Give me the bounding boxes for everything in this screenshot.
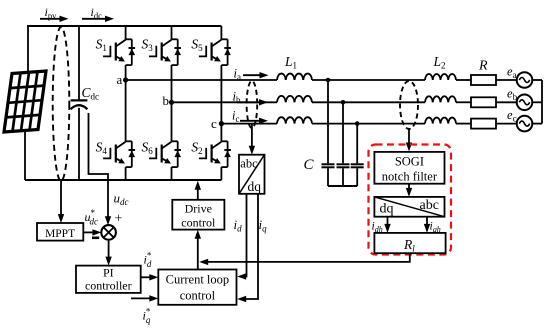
resistor R phase c <box>471 119 496 129</box>
wire PV bottom to bus <box>24 130 26 180</box>
grid source e_a <box>517 72 533 88</box>
arrow i_a <box>243 74 263 76</box>
current sensor ellipse (i_pv / DC side) <box>53 27 70 181</box>
resistor R phase b <box>471 97 496 107</box>
transistor S3 (IGBT with antiparallel diode) <box>149 39 181 65</box>
svg-text:b: b <box>163 93 170 108</box>
arrow i_dc <box>82 18 110 20</box>
node b dot <box>169 100 174 105</box>
top DC bus wire <box>27 25 221 27</box>
phase b wire <box>172 101 278 103</box>
arrow sensor to SOGI filter <box>408 129 410 148</box>
capacitor C_dc <box>71 99 88 101</box>
svg-text:C: C <box>304 157 315 173</box>
svg-text:i*q: i*q <box>143 307 151 326</box>
dq to abc transform block <box>374 197 444 217</box>
svg-text:dq: dq <box>380 202 394 217</box>
arrow MPPT to summer <box>83 231 98 233</box>
svg-text:a: a <box>117 72 123 87</box>
filter capacitor C phase c <box>351 163 364 165</box>
svg-text:R: R <box>478 59 488 74</box>
SOGI notch filter block <box>374 152 444 184</box>
transistor S4 (IGBT with antiparallel diode) <box>103 141 135 167</box>
arrow phase c to abc-dq transform <box>251 124 253 151</box>
red dashed harmonic-compensation group box <box>369 145 452 255</box>
grid neutral wire <box>541 80 543 124</box>
wire C_dc to bottom bus <box>78 108 80 180</box>
transistor S5 (IGBT with antiparallel diode) <box>199 39 231 65</box>
svg-text:abc: abc <box>240 157 258 171</box>
arrow i_c <box>240 120 262 122</box>
resistor R phase a <box>471 75 496 85</box>
capacitor bank common wire <box>328 185 357 187</box>
wire phase a to filter capacitor <box>327 80 329 163</box>
svg-text:abc: abc <box>420 198 439 213</box>
inductor L1 phase b <box>277 96 312 102</box>
filter capacitor C phase a <box>322 163 335 165</box>
abc to dq transform block <box>239 155 265 194</box>
arrow SOGI to dq-abc transform <box>408 184 410 193</box>
filter capacitor C phase b <box>337 163 350 165</box>
wire u_dc sense <box>89 113 109 180</box>
inverter leg a wire <box>125 26 127 39</box>
wire phase b to filter capacitor <box>342 102 344 163</box>
Current loop control block <box>158 270 236 305</box>
inductor L1 phase c <box>277 117 312 123</box>
node a dot <box>123 77 128 82</box>
svg-text:PI: PI <box>103 266 114 280</box>
arrow drive control to inverter <box>197 184 199 200</box>
svg-text:SOGI: SOGI <box>395 155 424 169</box>
arrow i_pv <box>40 18 65 20</box>
current sensor ellipse (phase currents) <box>247 81 258 128</box>
svg-text:+: + <box>115 212 123 227</box>
svg-text:Current loop: Current loop <box>166 273 230 287</box>
resistor block R_l <box>374 233 445 253</box>
inductor L2 phase a <box>425 74 456 80</box>
transistor S2 (IGBT with antiparallel diode) <box>199 141 231 167</box>
transistor S1 (IGBT with antiparallel diode) <box>103 39 135 65</box>
svg-text:Drive: Drive <box>185 202 212 216</box>
phase c wire <box>221 123 277 125</box>
MPPT block <box>37 223 83 241</box>
wire R_l feedback to current loop <box>202 253 410 262</box>
PV array panel <box>4 71 46 132</box>
current sensor ellipse (grid side) <box>400 81 418 129</box>
grid source e_b <box>517 95 533 111</box>
svg-text:control: control <box>180 289 216 303</box>
phase a wire <box>126 79 277 81</box>
Drive control block <box>172 200 224 230</box>
minus sign <box>92 237 99 240</box>
inductor L2 phase c <box>425 118 456 124</box>
PI controller block <box>76 266 141 293</box>
svg-text:controller: controller <box>85 279 132 293</box>
arrow PI to current loop <box>141 276 155 278</box>
wire i_q feedback <box>240 194 258 299</box>
arrow i_q_ref input <box>131 297 155 299</box>
svg-text:notch filter: notch filter <box>382 170 438 184</box>
arrow current loop to drive control <box>197 233 199 270</box>
svg-text:i*d: i*d <box>144 251 152 270</box>
inverter leg b wire <box>171 26 173 39</box>
arrow i_qh <box>426 217 428 229</box>
summing junction <box>101 225 116 240</box>
inductor L1 phase a <box>277 74 312 80</box>
svg-text:control: control <box>181 216 216 230</box>
transistor S6 (IGBT with antiparallel diode) <box>149 141 181 167</box>
arrow u_dc to summer <box>107 180 109 222</box>
svg-text:c: c <box>211 116 217 131</box>
wire phase c to filter capacitor <box>356 124 358 164</box>
wire PV top to bus <box>27 26 29 72</box>
grid source e_c <box>517 116 533 132</box>
arrow sensor to MPPT <box>60 181 62 219</box>
inductor L2 phase b <box>425 96 456 102</box>
wire i_d feedback <box>240 194 247 277</box>
svg-text:dq: dq <box>248 179 262 194</box>
bottom DC bus wire <box>25 179 221 181</box>
arrow summer to PI controller <box>108 240 110 262</box>
wire bus to C_dc <box>78 26 80 100</box>
arrow i_b <box>237 101 262 103</box>
inverter leg c wire <box>220 26 222 39</box>
svg-text:MPPT: MPPT <box>45 228 75 240</box>
arrow i_dh <box>387 217 389 229</box>
node c dot <box>219 121 224 126</box>
